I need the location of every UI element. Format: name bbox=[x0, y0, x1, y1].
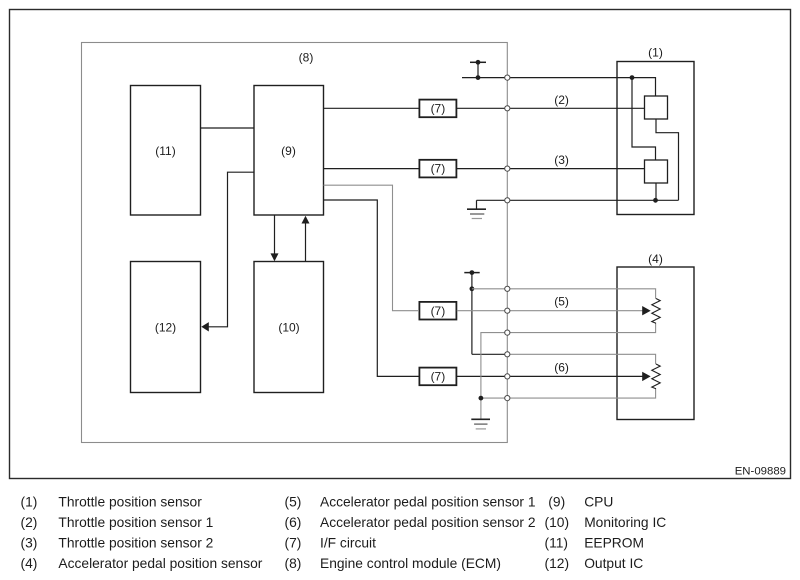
svg-text:EEPROM: EEPROM bbox=[584, 536, 644, 551]
svg-text:(7): (7) bbox=[431, 304, 446, 318]
junction dot lower power bbox=[470, 286, 475, 291]
wire EEPROM to CPU bbox=[201, 127, 255, 129]
wire throttle sensor ground bbox=[477, 199, 679, 201]
svg-text:Engine control module (ECM): Engine control module (ECM) bbox=[320, 556, 501, 571]
I/F circuit U2 box (7) for throttle signal 2 bbox=[419, 160, 456, 178]
block (9) CPU box bbox=[254, 86, 324, 216]
svg-text:(7): (7) bbox=[431, 162, 446, 176]
I/F circuit U1 box (7) for throttle signal 1 bbox=[419, 100, 456, 118]
wire CPU to I/F U4 bbox=[324, 200, 420, 376]
I/F circuit U3 box (7) for accel signal 1 bbox=[419, 302, 456, 320]
wire CPU to I/F U3 (gray net) bbox=[324, 185, 420, 311]
svg-text:(9): (9) bbox=[548, 495, 565, 510]
svg-text:(5): (5) bbox=[554, 295, 569, 309]
svg-text:(3): (3) bbox=[21, 536, 38, 551]
wire accel sensor 2 ground (gray) bbox=[481, 389, 656, 398]
wiper arrowhead (5) bbox=[642, 306, 651, 315]
block (1) Throttle position sensor box bbox=[617, 62, 694, 215]
legend column 2 bbox=[285, 495, 536, 572]
sensor element 1 square in (1) bbox=[645, 96, 668, 119]
svg-text:(12): (12) bbox=[155, 320, 176, 334]
svg-text:CPU: CPU bbox=[584, 495, 613, 510]
svg-text:(9): (9) bbox=[281, 144, 296, 158]
potentiometer element accel sensor 2 bbox=[652, 364, 660, 389]
power symbol lower (accel sensor supply) bbox=[464, 270, 479, 354]
wire CPU to Output IC with arrow bbox=[208, 172, 255, 327]
ground symbol upper bbox=[467, 200, 486, 218]
svg-text:Throttle position sensor 1: Throttle position sensor 1 bbox=[58, 515, 213, 530]
svg-text:(11): (11) bbox=[545, 536, 569, 551]
potentiometer element accel sensor 1 bbox=[652, 299, 660, 324]
svg-text:(10): (10) bbox=[545, 515, 570, 530]
wire accel sensor 2 power pin segment (dark) bbox=[472, 353, 507, 355]
ECM connector pin circles bbox=[505, 75, 510, 401]
svg-text:(10): (10) bbox=[278, 320, 299, 334]
block (11) EEPROM box bbox=[131, 86, 201, 216]
wire throttle sensor power bbox=[462, 78, 656, 96]
svg-text:I/F circuit: I/F circuit bbox=[320, 536, 376, 551]
svg-text:(3): (3) bbox=[554, 153, 569, 167]
legend column 3 bbox=[545, 495, 667, 572]
svg-text:Accelerator pedal position sen: Accelerator pedal position sensor bbox=[58, 556, 262, 571]
svg-text:(8): (8) bbox=[285, 556, 302, 571]
svg-text:(12): (12) bbox=[545, 556, 570, 571]
wire power branch to element 2 bbox=[632, 78, 656, 160]
svg-text:Throttle position sensor 2: Throttle position sensor 2 bbox=[58, 536, 213, 551]
wire accel sensor 1 power (gray) bbox=[472, 289, 656, 299]
wiper arrowhead (6) bbox=[642, 372, 651, 381]
block (4) Accelerator pedal position sensor box bbox=[617, 267, 694, 420]
svg-text:(1): (1) bbox=[648, 45, 663, 59]
wire accel signal 2 (6) U4 to potentiometer bbox=[457, 375, 643, 377]
wire element 1 bottom to ground rail bbox=[656, 119, 679, 200]
sensor element 2 square in (1) bbox=[645, 160, 668, 183]
wire throttle signal 2 (3) CPU to U2 bbox=[324, 168, 420, 170]
junction dot sensor ground bbox=[653, 198, 658, 203]
svg-text:(8): (8) bbox=[299, 50, 314, 64]
svg-text:(11): (11) bbox=[155, 144, 175, 158]
junction dot node in sensor (1) bbox=[630, 75, 635, 80]
junction dot lower ground bbox=[479, 396, 484, 401]
wire Monitoring IC up to CPU bbox=[305, 223, 307, 262]
junction dot upper power bbox=[476, 75, 481, 80]
svg-text:(1): (1) bbox=[21, 495, 38, 510]
ground symbol lower bbox=[471, 419, 490, 429]
wire accel sensor 1 ground (gray) bbox=[481, 323, 656, 419]
wire accel sensor 2 power inside (gray) bbox=[507, 354, 655, 364]
svg-text:(6): (6) bbox=[285, 515, 302, 530]
svg-text:(6): (6) bbox=[554, 361, 569, 375]
wire throttle signal 2 (3) U2 to sensor element 2 bbox=[457, 168, 645, 170]
svg-text:(4): (4) bbox=[648, 252, 663, 266]
svg-text:(7): (7) bbox=[431, 370, 446, 384]
svg-text:Accelerator pedal position sen: Accelerator pedal position sensor 2 bbox=[320, 515, 536, 530]
svg-text:Monitoring IC: Monitoring IC bbox=[584, 515, 666, 530]
I/F circuit U4 box (7) for accel signal 2 bbox=[419, 368, 456, 386]
wire throttle signal 1 (2) CPU to U1 bbox=[324, 107, 420, 109]
svg-text:(4): (4) bbox=[21, 556, 38, 571]
svg-text:(7): (7) bbox=[431, 102, 446, 116]
wire CPU down to Monitoring IC bbox=[274, 215, 276, 254]
block (12) Output IC box bbox=[131, 262, 201, 393]
svg-text:Throttle position sensor: Throttle position sensor bbox=[58, 495, 202, 510]
arrowhead into (12) bbox=[201, 322, 209, 331]
legend column 1 bbox=[21, 495, 263, 572]
block (10) Monitoring IC box bbox=[254, 262, 324, 393]
wire accel signal 1 (5) U3 to potentiometer bbox=[457, 310, 643, 312]
svg-text:Output IC: Output IC bbox=[584, 556, 643, 571]
power symbol upper (sensor supply) bbox=[470, 60, 486, 78]
svg-text:(7): (7) bbox=[285, 536, 302, 551]
wire throttle signal 1 (2) U1 to sensor element 1 bbox=[457, 107, 645, 109]
svg-text:EN-09889: EN-09889 bbox=[735, 466, 786, 478]
arrowhead up into (9) bbox=[302, 216, 310, 224]
wire element 2 bottom to ground bbox=[655, 183, 657, 200]
arrowhead down into (10) bbox=[271, 253, 279, 261]
svg-text:(2): (2) bbox=[21, 515, 38, 530]
svg-text:(2): (2) bbox=[554, 93, 569, 107]
svg-text:(5): (5) bbox=[285, 495, 302, 510]
svg-text:Accelerator pedal position sen: Accelerator pedal position sensor 1 bbox=[320, 495, 536, 510]
ECM block (8) Engine control module box bbox=[82, 43, 508, 443]
